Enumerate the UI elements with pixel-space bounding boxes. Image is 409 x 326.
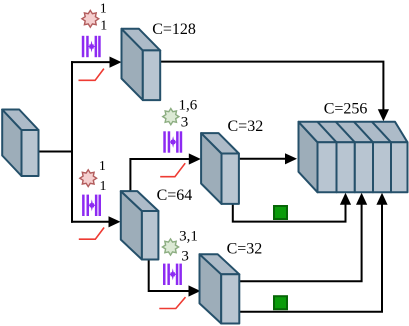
svg-text:1: 1 (100, 179, 107, 194)
arrowhead into bottom C=32 box (189, 285, 201, 296)
svg-text:C=128: C=128 (152, 21, 196, 38)
wire middle C=32 bottom output to concat bottom (233, 203, 346, 222)
kernel star icon branch1 (pink) (82, 10, 99, 27)
wire trunk to C=128 conv branch (71, 61, 111, 63)
conv icon middle branch (1x6) (163, 131, 182, 152)
wire bottom C=32 upper output to concat bottom (239, 203, 361, 281)
conv icon branch2 (1x1) (82, 195, 101, 216)
svg-text:1: 1 (99, 159, 106, 174)
kernel star icon middle branch (green) (163, 109, 179, 125)
arrowhead into C=64 box (109, 216, 121, 227)
relu icon middle branch (160, 163, 185, 177)
relu icon branch1 (79, 69, 104, 81)
svg-text:1,6: 1,6 (179, 97, 198, 113)
svg-text:1: 1 (100, 1, 107, 16)
arrowhead into C=128 box (110, 57, 122, 68)
relu icon bottom branch (159, 297, 185, 308)
arrowhead into C=256 concat left (285, 153, 297, 164)
pool/batchnorm square on middle C=32 path (274, 206, 287, 219)
box middle C=32 (201, 133, 239, 204)
svg-text:C=256: C=256 (324, 100, 368, 117)
svg-text:C=64: C=64 (157, 187, 193, 204)
arrowhead into middle C=32 box (189, 153, 201, 164)
wire C=64 top output to middle conv branch (130, 159, 191, 192)
svg-text:1: 1 (100, 19, 107, 34)
wire trunk to C=64 conv branch (71, 221, 110, 223)
relu icon branch2 (79, 228, 104, 240)
svg-text:C=32: C=32 (228, 118, 264, 135)
wire C=64 bottom output to bottom conv branch (149, 260, 191, 291)
box C=128 (122, 29, 161, 100)
arrowhead up into concat bottom 2 (356, 193, 367, 205)
concat stack box C=256 (5 slabs) (299, 122, 408, 193)
wire input box to trunk (39, 151, 73, 153)
svg-text:C=32: C=32 (227, 241, 263, 258)
box C=64 (121, 191, 159, 259)
wire C=128 output to concat top (161, 62, 384, 110)
input tensor box (2, 110, 38, 177)
kernel star icon bottom branch (green) (162, 239, 178, 255)
svg-text:3: 3 (181, 248, 189, 264)
arrowhead down into C=256 concat top (378, 109, 389, 121)
arrowhead up into concat bottom 3 (376, 193, 387, 205)
svg-text:3,1: 3,1 (179, 228, 198, 244)
wire middle C=32 output to concat left (239, 158, 287, 160)
wire trunk vertical (71, 61, 73, 223)
conv icon bottom branch (3x1) (163, 264, 182, 285)
arrowhead up into concat bottom 1 (340, 193, 351, 205)
pool/batchnorm square on bottom C=32 path (274, 296, 287, 309)
box bottom C=32 (200, 254, 240, 323)
wire bottom C=32 lower output to concat bottom (239, 203, 382, 312)
kernel star icon branch2 (pink) (80, 170, 97, 187)
conv icon branch1 (1x1) (82, 36, 101, 57)
svg-text:3: 3 (181, 115, 189, 131)
